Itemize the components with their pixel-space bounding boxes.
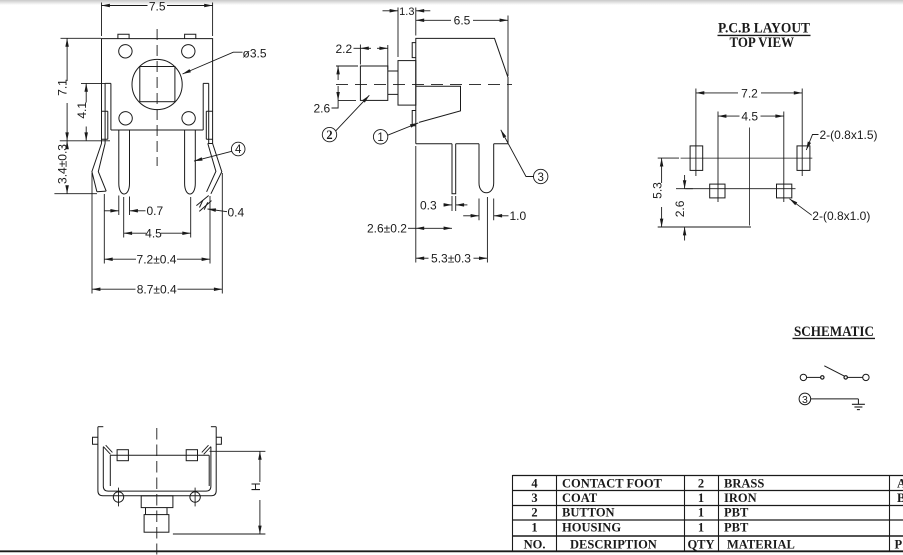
svg-text:3: 3 — [802, 394, 808, 406]
svg-text:COAT: COAT — [562, 491, 598, 505]
svg-text:B: B — [897, 491, 903, 505]
pivot bump right — [190, 488, 200, 507]
sheet frame bottom line — [0, 550, 903, 552]
wire left — [807, 376, 821, 378]
svg-text:BRASS: BRASS — [724, 477, 764, 491]
svg-text:1: 1 — [698, 521, 704, 535]
svg-text:1: 1 — [531, 521, 537, 535]
table row 1 — [531, 477, 903, 491]
svg-text:2-(0.8x1.5): 2-(0.8x1.5) — [820, 128, 878, 142]
base edge line — [110, 454, 209, 456]
stem button — [144, 515, 169, 533]
corner hole bottom-right — [182, 112, 195, 125]
svg-text:4: 4 — [235, 144, 242, 156]
bottom view bracket outer — [98, 427, 216, 496]
button cap — [360, 66, 387, 100]
stem tier 1 — [141, 496, 173, 508]
svg-text:BUTTON: BUTTON — [562, 506, 615, 520]
svg-text:7.2: 7.2 — [741, 86, 758, 100]
dim 0.7 — [105, 196, 146, 216]
dim 7.1 left — [60, 38, 110, 141]
svg-text:QTY: QTY — [687, 537, 714, 551]
dim 1.0 — [463, 199, 508, 221]
side view mount tab upper — [412, 43, 416, 58]
svg-text:2-(0.8x1.0): 2-(0.8x1.0) — [812, 209, 870, 223]
wire right — [847, 376, 863, 378]
svg-text:CONTACT FOOT: CONTACT FOOT — [562, 477, 663, 491]
switch terminal right — [863, 374, 869, 380]
dim 4.5 — [124, 197, 191, 238]
svg-text:0.4: 0.4 — [228, 206, 245, 220]
pcb pad lower-right — [777, 184, 792, 198]
svg-text:IRON: IRON — [724, 491, 757, 505]
front view crimp notch right — [206, 111, 212, 139]
base side right — [208, 455, 210, 486]
dim 4.1 left — [81, 83, 105, 140]
lug square right — [186, 450, 197, 461]
svg-text:1: 1 — [377, 132, 383, 144]
post cap right — [211, 426, 216, 428]
pcb pad row line upper — [681, 157, 813, 159]
side view centerline — [336, 83, 512, 85]
pcb dim 2.6 — [676, 175, 693, 241]
dim 6.5 top — [416, 16, 508, 77]
corner hole bottom-left — [119, 112, 132, 125]
dim 7.2±0.4 — [104, 194, 210, 264]
node pole right — [844, 376, 847, 379]
pcb dim 7.2 — [696, 89, 802, 177]
side view body outline — [416, 38, 508, 143]
stem tier 2 — [146, 508, 168, 515]
outer leg right — [200, 144, 222, 210]
svg-text:H: H — [249, 482, 263, 491]
svg-text:NO.: NO. — [524, 537, 546, 551]
svg-text:4.5: 4.5 — [145, 226, 162, 240]
bottom view centerline — [156, 428, 158, 555]
svg-text:P: P — [895, 537, 903, 551]
button square — [140, 67, 175, 102]
svg-text:HOUSING: HOUSING — [562, 521, 621, 535]
table row 2 — [531, 491, 903, 505]
balloon 1 — [373, 123, 418, 144]
pcb pad row line lower — [685, 188, 795, 190]
lug square left — [117, 450, 128, 461]
dim 3.4±0.3 left — [54, 141, 97, 194]
table row 3 — [531, 506, 749, 520]
svg-text:6.5: 6.5 — [454, 14, 471, 28]
corner chamfer left — [103, 445, 112, 454]
button circle — [132, 59, 182, 109]
balloon 2 — [322, 95, 369, 142]
table row 4 — [531, 521, 749, 535]
side inner thin leg — [452, 144, 456, 194]
pcb dim 5.3 — [658, 158, 751, 227]
dim 2.2 — [354, 45, 388, 70]
pcb pad upper-left — [690, 146, 703, 171]
svg-text:ø3.5: ø3.5 — [243, 47, 267, 61]
inner leg left — [119, 130, 130, 194]
balloon 3 — [501, 130, 548, 184]
front view top tab right — [185, 34, 196, 38]
pivot bump left — [113, 488, 123, 507]
svg-text:SCHEMATIC: SCHEMATIC — [794, 324, 874, 340]
dim 0.3 — [444, 196, 468, 211]
bottom view bracket inner — [103, 447, 211, 491]
svg-text:2: 2 — [698, 477, 704, 491]
dim H — [173, 451, 266, 534]
outer leg left — [92, 144, 106, 192]
pcb label 2-(0.8x1.5) — [806, 135, 818, 151]
dim 7.5 top — [102, 3, 213, 37]
stem plate — [398, 61, 416, 106]
dim 1.3 top — [383, 8, 431, 58]
svg-text:0.7: 0.7 — [147, 204, 164, 218]
svg-text:PBT: PBT — [724, 521, 749, 535]
svg-text:3: 3 — [531, 491, 537, 505]
svg-text:5.3±0.3: 5.3±0.3 — [431, 252, 471, 266]
dim 5.3±0.3 — [416, 197, 488, 263]
dim 2.6±0.2 — [408, 146, 452, 263]
label 0.4 with leader — [208, 209, 228, 212]
dim 8.7±0.4 — [92, 173, 222, 294]
pcb pad upper-right — [797, 146, 810, 171]
front view top tab left — [118, 34, 129, 38]
node pole left — [821, 376, 824, 379]
svg-text:1.3: 1.3 — [399, 6, 414, 18]
dim 2.6 cap height — [332, 66, 359, 108]
svg-text:A: A — [897, 477, 903, 491]
svg-text:4.1: 4.1 — [75, 102, 89, 119]
svg-text:7.5: 7.5 — [149, 0, 166, 14]
svg-text:MATERIAL: MATERIAL — [727, 537, 795, 551]
corner chamfer right — [202, 445, 211, 454]
side view mount tab lower — [412, 111, 416, 126]
table header row — [524, 537, 903, 551]
pcb label 2-(0.8x1.0) — [790, 199, 812, 216]
svg-text:2.6: 2.6 — [673, 200, 687, 217]
pcb dim 4.5 — [718, 112, 784, 203]
svg-text:TOP VIEW: TOP VIEW — [730, 35, 795, 51]
svg-text:2.6±0.2: 2.6±0.2 — [367, 222, 407, 236]
svg-text:PBT: PBT — [724, 506, 749, 520]
scan shading top edge — [0, 0, 903, 5]
table grid — [513, 476, 903, 537]
balloon 4 — [194, 142, 245, 161]
svg-text:1: 1 — [698, 506, 704, 520]
internal contact lever — [416, 86, 461, 122]
svg-text:DESCRIPTION: DESCRIPTION — [570, 537, 657, 551]
stem neck — [388, 71, 398, 94]
pcb centerline vertical — [749, 128, 751, 226]
svg-text:2.6: 2.6 — [314, 102, 331, 116]
side outer leg — [479, 144, 494, 193]
svg-text:2: 2 — [326, 128, 332, 142]
ground — [852, 399, 865, 410]
front view body outline — [102, 39, 213, 144]
corner hole top-right — [182, 45, 195, 58]
balloon 3 schematic — [799, 393, 811, 405]
svg-text:7.1: 7.1 — [56, 79, 70, 96]
switch terminal left — [800, 374, 806, 380]
break slash marks on right leg — [196, 196, 211, 212]
svg-text:4: 4 — [531, 477, 538, 491]
svg-text:1: 1 — [698, 491, 704, 505]
inner leg right — [185, 130, 196, 194]
svg-text:3: 3 — [537, 172, 543, 184]
post cap left — [98, 426, 103, 428]
front view crimp notch left — [102, 111, 108, 139]
svg-text:0.3: 0.3 — [420, 198, 437, 212]
pcb pad lower-left — [710, 184, 725, 198]
base side left — [109, 455, 111, 486]
svg-text:2.2: 2.2 — [336, 42, 353, 56]
label ø3.5 with leader — [183, 52, 243, 74]
post tab left — [93, 437, 98, 444]
svg-text:7.2±0.4: 7.2±0.4 — [137, 252, 177, 266]
svg-text:5.3: 5.3 — [650, 182, 664, 199]
svg-text:1.0: 1.0 — [510, 209, 527, 223]
svg-text:3.4±0.3: 3.4±0.3 — [56, 144, 70, 184]
svg-text:8.7±0.4: 8.7±0.4 — [137, 282, 177, 296]
wire to ground — [811, 398, 859, 400]
corner hole top-left — [119, 45, 132, 58]
post tab right — [216, 437, 221, 444]
svg-text:4.5: 4.5 — [741, 110, 758, 124]
svg-text:2: 2 — [531, 506, 537, 520]
svg-text:P.C.B LAYOUT: P.C.B LAYOUT — [718, 21, 810, 37]
switch lever — [824, 366, 845, 377]
front view centerline — [156, 29, 158, 166]
